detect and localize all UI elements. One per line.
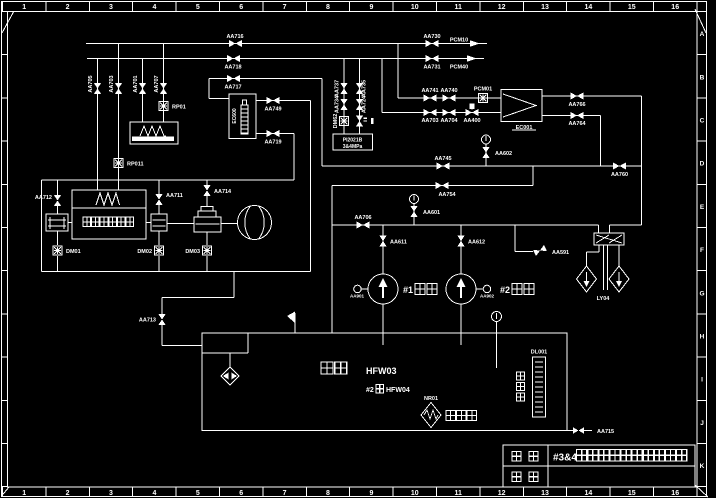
title block drawing title [553,450,687,464]
svg-text:AA760: AA760 [611,172,628,178]
title block cell number label [512,472,538,482]
svg-text:AA737: AA737 [335,80,341,97]
svg-text:4: 4 [152,4,156,11]
heater box E1 [130,122,178,144]
label EC001 [512,125,536,131]
svg-text:16: 16 [671,4,679,11]
svg-text:AA713: AA713 [139,318,156,324]
svg-text:RP011: RP011 [127,162,144,168]
wire drop column 3 [142,59,144,123]
svg-text:PCM10: PCM10 [450,38,468,44]
wire drop column 4 [163,44,165,123]
purifier EC600 box [229,94,256,139]
svg-text:AA612: AA612 [468,240,485,246]
cooler EC001 box [501,90,542,122]
svg-text:#1: #1 [403,285,413,295]
purifier EC600 ladder [241,100,248,134]
corner trim mark top-right [695,9,706,33]
corner trim mark top-left [2,11,14,33]
svg-text:AA734: AA734 [335,95,341,113]
label DM02 [137,249,152,255]
wire drop column 1 [97,59,99,191]
tank drain line [567,430,592,432]
svg-text:16: 16 [671,490,679,497]
valve AA602 [482,147,489,158]
wire suction header y225 [332,224,599,226]
level gauge vertical text [517,372,525,401]
bottom zone numbers 1-16 [22,490,679,497]
svg-text:AA611: AA611 [390,240,407,246]
corner trim mark bottom-left [2,487,10,496]
vent flag [287,312,295,334]
wire center column A [343,59,345,135]
svg-text:15: 15 [628,4,636,11]
solenoid DM62 [340,117,349,126]
svg-text:7: 7 [283,4,287,11]
label AA716 [226,34,243,40]
wire drop x294 to enclosure top [293,134,295,181]
label DM62 rotated [333,114,339,129]
label AA735 rotated [362,80,368,97]
label AA611 [390,240,407,246]
svg-text:AA707: AA707 [154,75,160,92]
thermometer TI [492,312,502,369]
wire F1 to DM01 [57,231,59,245]
svg-text:PCM40: PCM40 [450,65,468,71]
svg-text:AA745: AA745 [434,156,451,162]
svg-text:AA400: AA400 [463,118,480,124]
svg-text:DM01: DM01 [66,249,81,255]
wire enclosure top [42,179,295,181]
label DL001 [531,350,548,356]
wire motor feed column x97 [97,94,99,190]
level gauge LS001 [533,357,546,417]
pump1 text [403,284,437,296]
gauge AA902 [476,285,494,298]
right zone band ticks [697,12,707,487]
label RP011 [127,162,144,168]
svg-text:AA712: AA712 [35,195,52,201]
svg-text:1: 1 [22,4,26,11]
motor heater zigzag [96,193,120,205]
svg-text:AA901: AA901 [350,294,365,299]
svg-text:13: 13 [541,490,549,497]
svg-text:#3&4: #3&4 [553,453,577,464]
label AA591 [552,250,569,256]
motor text label [83,217,134,227]
svg-text:I: I [701,377,703,384]
svg-text:5: 5 [196,490,200,497]
valve AA706 [357,221,370,228]
wire AA713 to tank [162,325,202,346]
svg-text:AA703: AA703 [109,75,115,92]
title block frame [503,445,695,487]
solenoid RP011 [114,159,123,168]
wire EC600 inlet elbow [209,79,229,99]
valve AA737 [340,83,347,94]
svg-text:AA718: AA718 [224,65,241,71]
motor valve AA400 [466,104,479,117]
label AA713 [139,318,156,324]
wire drop x600 [600,116,602,167]
wire enclosure left [41,180,43,272]
wire duplex inlet left [598,225,600,233]
label AA734 rotated [335,95,341,113]
svg-text:14: 14 [585,4,593,11]
svg-text:14: 14 [585,490,593,497]
svg-text:AA711: AA711 [166,193,183,199]
wire station top [332,185,533,187]
svg-text:EC600: EC600 [232,108,238,124]
wire cooler feed upper [398,97,501,99]
svg-text:5: 5 [196,4,200,11]
label AA740 [440,88,457,94]
valve AA740 [443,94,456,101]
wire cooler outlet upper [542,95,642,97]
label LY04 [597,296,611,302]
breather filter stem [229,353,231,367]
motor box M [72,190,146,239]
instrument panel box [333,134,373,150]
label NR01 [424,396,438,402]
svg-text:AA754: AA754 [438,192,456,198]
wire pump2 discharge [460,304,462,345]
svg-text:E: E [700,204,705,211]
valve AA712 [54,195,61,206]
label AA718 [224,65,241,71]
label AA705 rotated [88,75,94,92]
gauge branch AA601 [413,204,415,225]
svg-text:3: 3 [109,4,113,11]
label AA712 [35,195,52,201]
wire cooler feed lower [382,112,501,114]
damper DM02 [155,246,164,255]
svg-text:12: 12 [498,490,506,497]
gauge AA901 [350,285,368,298]
damper DM01 [53,246,62,255]
wire enclosure outlet route [162,272,234,315]
wire duplex to filter elements [587,245,620,290]
svg-text:2: 2 [66,4,70,11]
svg-text:PI2021B: PI2021B [343,138,363,144]
label AA701 rotated [133,75,139,92]
pipe tag PC010 [450,38,468,44]
wire return line y166 [322,165,642,167]
svg-text:6: 6 [239,4,243,11]
svg-text:AA730: AA730 [423,34,440,40]
pump2 text [500,284,534,296]
label AA714 [214,189,232,195]
top zone band ticks [3,2,697,12]
valve AA718 on L2 [227,55,240,62]
svg-text:12: 12 [498,4,506,11]
label DM01 [66,249,81,255]
heater NR01 diamond [421,403,441,428]
gauge branch AA602 [485,144,487,166]
svg-text:8: 8 [326,4,330,11]
wire EC600 top loop [209,78,322,80]
label AA400 [463,118,480,124]
valve AA766 [571,92,584,99]
wire drop x398 [397,44,399,99]
svg-text:AA719: AA719 [264,140,281,146]
svg-text:DL001: DL001 [531,350,548,356]
wire motor to filter F2 [68,222,151,224]
svg-text:G: G [699,290,704,297]
wire pump1 discharge [382,304,384,345]
label AA703 rotated [109,75,115,92]
valve AA716 on L1 [229,40,242,47]
svg-text:AA724: AA724 [362,95,368,113]
wire drop column 2 [118,44,120,191]
svg-text:#2: #2 [366,387,374,394]
svg-text:AA703: AA703 [421,118,438,124]
wire branch AA712 [57,180,59,214]
svg-text:1: 1 [22,490,26,497]
svg-text:AA749: AA749 [264,107,281,113]
svg-text:10: 10 [411,490,419,497]
label AA717 [224,85,241,91]
svg-text:D: D [700,161,705,168]
wire header line L2 [87,58,484,60]
motor box divider [72,207,146,209]
pressure gauge PI601 [410,195,419,204]
svg-text:AA705: AA705 [88,75,94,92]
valve AA703 [115,83,122,94]
valve AA724 [356,99,363,110]
wire drop x533 to station [532,166,534,186]
svg-text:3&4MPa: 3&4MPa [343,144,363,150]
valve AA713 [158,314,165,325]
title block cell fence label [512,452,538,462]
svg-text:15: 15 [628,490,636,497]
svg-text:AA764: AA764 [568,121,586,127]
svg-text:HFW04: HFW04 [386,387,410,394]
valve AA719 [267,130,280,137]
svg-text:NR01: NR01 [424,396,438,402]
wire motor feed column x119 [118,94,120,190]
label AA703b [421,118,438,124]
label AA719 [264,140,281,146]
heater element zigzag [140,126,166,136]
svg-text:AA902: AA902 [480,294,495,299]
valve AA745 [437,162,450,169]
instrument panel text [343,138,363,151]
svg-text:3: 3 [109,490,113,497]
wire drop x322 to return line [321,79,323,167]
left zone band ticks [2,12,8,487]
svg-text:10: 10 [411,4,419,11]
solenoid PCM01 [479,94,488,103]
svg-text:AA735: AA735 [362,80,368,97]
filter element LY04-2 [609,266,629,292]
svg-text:11: 11 [454,490,462,497]
svg-text:PCM01: PCM01 [474,87,492,93]
wire F2 to blower [167,223,194,225]
valve AA704b [443,109,456,116]
svg-text:AA717: AA717 [224,85,241,91]
wire header line L1 [86,43,487,45]
cooler EC001 chevron [503,94,536,117]
solenoid RP01 [159,102,168,111]
bottom zone band ticks [3,487,697,497]
label AA731 [423,65,440,71]
svg-text:HFW03: HFW03 [366,366,397,376]
label AA741 [421,88,438,94]
label B mark [364,118,374,125]
oil tank HFW03 [202,333,567,431]
valve AA717 [227,75,240,82]
wire branch AA711 [158,180,160,214]
wire DM03 down [206,256,208,272]
svg-text:AA591: AA591 [552,250,569,256]
wire duplex inlet right [610,225,642,233]
svg-text:AA731: AA731 [423,65,440,71]
svg-text:AA601: AA601 [423,210,440,216]
svg-text:13: 13 [541,4,549,11]
valve AA611 [379,236,386,247]
svg-text:6: 6 [239,490,243,497]
wire enclosure bottom [42,271,311,273]
svg-text:C: C [700,118,705,125]
label AA602 [495,151,512,157]
valve AA715 [573,427,584,433]
corner trim mark bottom-right [695,485,708,497]
svg-text:AA704: AA704 [440,118,458,124]
svg-text:2: 2 [66,490,70,497]
right zone letters A-K [699,31,704,470]
svg-text:9: 9 [369,4,373,11]
label AA737 rotated [335,80,341,97]
valve AA754 [436,182,449,189]
svg-text:7: 7 [283,490,287,497]
svg-text:AA740: AA740 [440,88,457,94]
label AA745 [434,156,451,162]
svg-text:RP01: RP01 [172,105,186,111]
wire right riser x641 [641,96,643,225]
svg-text:AA706: AA706 [354,215,371,221]
blower housing [194,207,221,233]
label AA704b [440,118,458,124]
wire EC600 outlet upper [256,100,311,102]
valve AA734 [340,99,347,110]
tank inlet chamber [202,333,248,353]
svg-text:DM03: DM03 [185,249,200,255]
label AA612 [468,240,485,246]
valve AA705 [94,83,101,94]
valve AA760 [613,162,626,169]
label AA715 [597,429,614,435]
valve AA741 [424,94,437,101]
wire drop x382 [381,59,383,113]
breather filter diamond [221,367,239,385]
pump P2 circle [446,274,476,304]
label AA724 rotated [362,95,368,113]
valve AA703b [424,109,437,116]
svg-text:11: 11 [454,4,462,11]
svg-text:LY04: LY04 [597,296,611,302]
valve AA591 [533,245,547,256]
wire pump2 suction [460,225,462,274]
label DM03 [185,249,200,255]
svg-text:DM62: DM62 [333,114,339,129]
wire blower to DM03 [206,232,208,245]
label RP01 [172,105,186,111]
valve AA714 [203,185,210,196]
top zone numbers 1-16 [22,4,679,11]
svg-text:AA701: AA701 [133,75,139,92]
flow arrow L1 [470,40,480,47]
label AA601 [423,210,440,216]
filter element LY04-1 [577,266,597,292]
valve AA612 [457,236,464,247]
title block divider lines [503,445,695,487]
svg-text:J: J [700,420,704,427]
pipe tag PCM40 [450,65,468,71]
label AA764 [568,121,586,127]
label AA707 rotated [154,75,160,92]
damper DM03 [203,246,212,255]
label AA749 [264,107,281,113]
svg-text:#2: #2 [500,285,510,295]
svg-text:8: 8 [326,490,330,497]
wire branch AA714 [206,180,208,206]
valve AA735 [356,83,363,94]
filter F1 [46,214,68,231]
svg-text:AA741: AA741 [421,88,438,94]
label AA760 [611,172,628,178]
svg-text:AA766: AA766 [568,102,585,108]
wire blower to fan [221,223,238,225]
wire F2 to DM02 [158,231,160,245]
svg-text:AA715: AA715 [597,429,614,435]
valve AA601 [410,206,417,217]
svg-text:4: 4 [152,490,156,497]
svg-text:K: K [700,463,705,470]
wire cooler outlet lower [542,115,601,117]
svg-text:AA716: AA716 [226,34,243,40]
valve AA701 [139,83,146,94]
label AA706 [354,215,371,221]
label AA730 [423,34,440,40]
label PCM01 [474,87,492,93]
svg-text:A: A [700,31,705,38]
label AA754 [438,192,456,198]
label EC600 rotated [232,108,238,124]
valve AA731 on L2 [426,55,439,62]
valve AA711 [155,194,162,205]
valve AA722 [356,116,363,127]
wire DM01 down [57,256,59,272]
pump P1 circle [368,274,398,304]
svg-text:9: 9 [369,490,373,497]
wire pump1 suction [382,225,384,274]
valve AA764 [571,112,584,119]
svg-text:B: B [700,74,705,81]
fan impeller circle [238,206,272,240]
heater element bar [132,137,174,142]
svg-text:AA714: AA714 [214,189,232,195]
wire drop x310 to enclosure bottom [310,101,312,272]
valve AA707 [160,83,167,94]
wire station left boundary [331,186,333,334]
svg-text:AA602: AA602 [495,151,512,157]
heater text [446,411,477,421]
valve AA730 on L1 [426,40,439,47]
label AA711 [166,193,183,199]
flow arrow L2 [467,55,477,62]
svg-text:H: H [700,334,705,341]
